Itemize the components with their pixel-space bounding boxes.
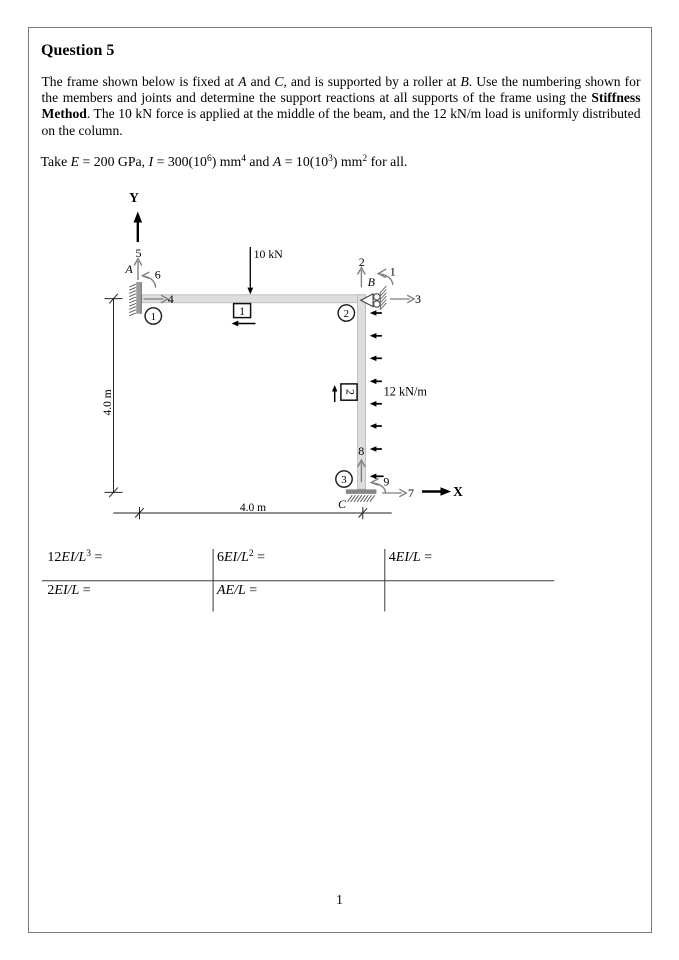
- svg-text:5: 5: [136, 246, 142, 260]
- svg-text:1: 1: [239, 306, 245, 318]
- svg-text:1: 1: [151, 311, 156, 323]
- svg-text:4.0 m: 4.0 m: [102, 389, 114, 415]
- DOF 9 curved arrow at C: [371, 479, 385, 494]
- svg-text:2: 2: [359, 255, 365, 269]
- DOF 2 arrow at B: [358, 268, 366, 288]
- DOF 7 arrow at C: [382, 489, 406, 497]
- fixed support wall bar at A: [136, 282, 141, 314]
- svg-text:7: 7: [408, 486, 414, 500]
- svg-text:2: 2: [343, 389, 357, 395]
- member 1 box label: [234, 304, 251, 318]
- svg-text:6: 6: [155, 268, 161, 282]
- svg-text:10 kN: 10 kN: [254, 247, 284, 261]
- DOF 4 arrow at node 1: [144, 295, 169, 303]
- horizontal dimension line 4.0 m: [113, 507, 391, 519]
- svg-text:9: 9: [383, 475, 389, 489]
- distributed load arrow 2: [370, 333, 382, 339]
- svg-text:C: C: [338, 497, 347, 511]
- member 2 direction arrow: [332, 385, 337, 402]
- 10 kN force arrow: [247, 247, 283, 295]
- page number: [0, 892, 679, 908]
- roller hatching: [380, 286, 386, 310]
- beam member (horizontal, node 1 to node 2): [142, 295, 366, 303]
- X axis arrow: [422, 484, 463, 499]
- distributed load arrow 7: [370, 446, 382, 452]
- DOF 6 curved arrow at A: [142, 272, 155, 288]
- svg-text:B: B: [368, 275, 376, 289]
- distributed load arrow 6: [370, 423, 382, 429]
- svg-text:Y: Y: [129, 190, 139, 205]
- member 2 box label: [341, 384, 358, 400]
- table vertical line 2: [384, 549, 386, 612]
- node 3 circle: [336, 471, 352, 487]
- fixed support hatching at C: [348, 495, 375, 502]
- paragraph: [42, 74, 641, 140]
- svg-text:8: 8: [358, 444, 364, 458]
- svg-text:X: X: [453, 484, 463, 499]
- formula table row2: [47, 583, 90, 599]
- DOF 1 curved arrow at B: [378, 269, 393, 285]
- svg-text:4.0 m: 4.0 m: [240, 502, 266, 514]
- roller support triangle at B: [361, 294, 373, 307]
- svg-text:A: A: [124, 262, 133, 276]
- distributed load arrow 1: [370, 310, 382, 316]
- take line: [41, 154, 408, 170]
- fixed support hatching at A: [129, 284, 136, 316]
- svg-text:1: 1: [390, 264, 396, 278]
- svg-text:2: 2: [344, 308, 349, 320]
- formula table row1: [47, 550, 102, 566]
- heading: [41, 42, 114, 60]
- distributed load arrow 3: [370, 356, 382, 362]
- node 1 circle: [145, 308, 161, 324]
- distributed load arrow 5: [370, 401, 382, 407]
- svg-text:12 kN/m: 12 kN/m: [384, 384, 428, 398]
- svg-text:3: 3: [341, 474, 346, 486]
- distributed load arrow 8: [370, 474, 384, 480]
- DOF 3 arrow at B: [390, 295, 414, 303]
- DOF 8 arrow at C: [358, 460, 366, 482]
- DOF 5 arrow at A: [134, 259, 142, 281]
- distributed load arrow 4: [370, 379, 382, 385]
- table horizontal line: [42, 580, 554, 582]
- roller wall line: [379, 292, 381, 309]
- svg-text:4: 4: [168, 292, 174, 306]
- node 2 circle: [338, 305, 354, 321]
- table vertical line 1: [212, 549, 214, 612]
- svg-text:3: 3: [415, 292, 421, 306]
- fixed support base bar at C: [346, 489, 377, 494]
- member 1 direction arrow: [232, 321, 256, 327]
- roller circles: [374, 294, 380, 300]
- vertical dimension line 4.0 m: [105, 294, 123, 497]
- column member (vertical, node 2 to node 3): [358, 295, 366, 489]
- Y axis arrow: [129, 190, 142, 242]
